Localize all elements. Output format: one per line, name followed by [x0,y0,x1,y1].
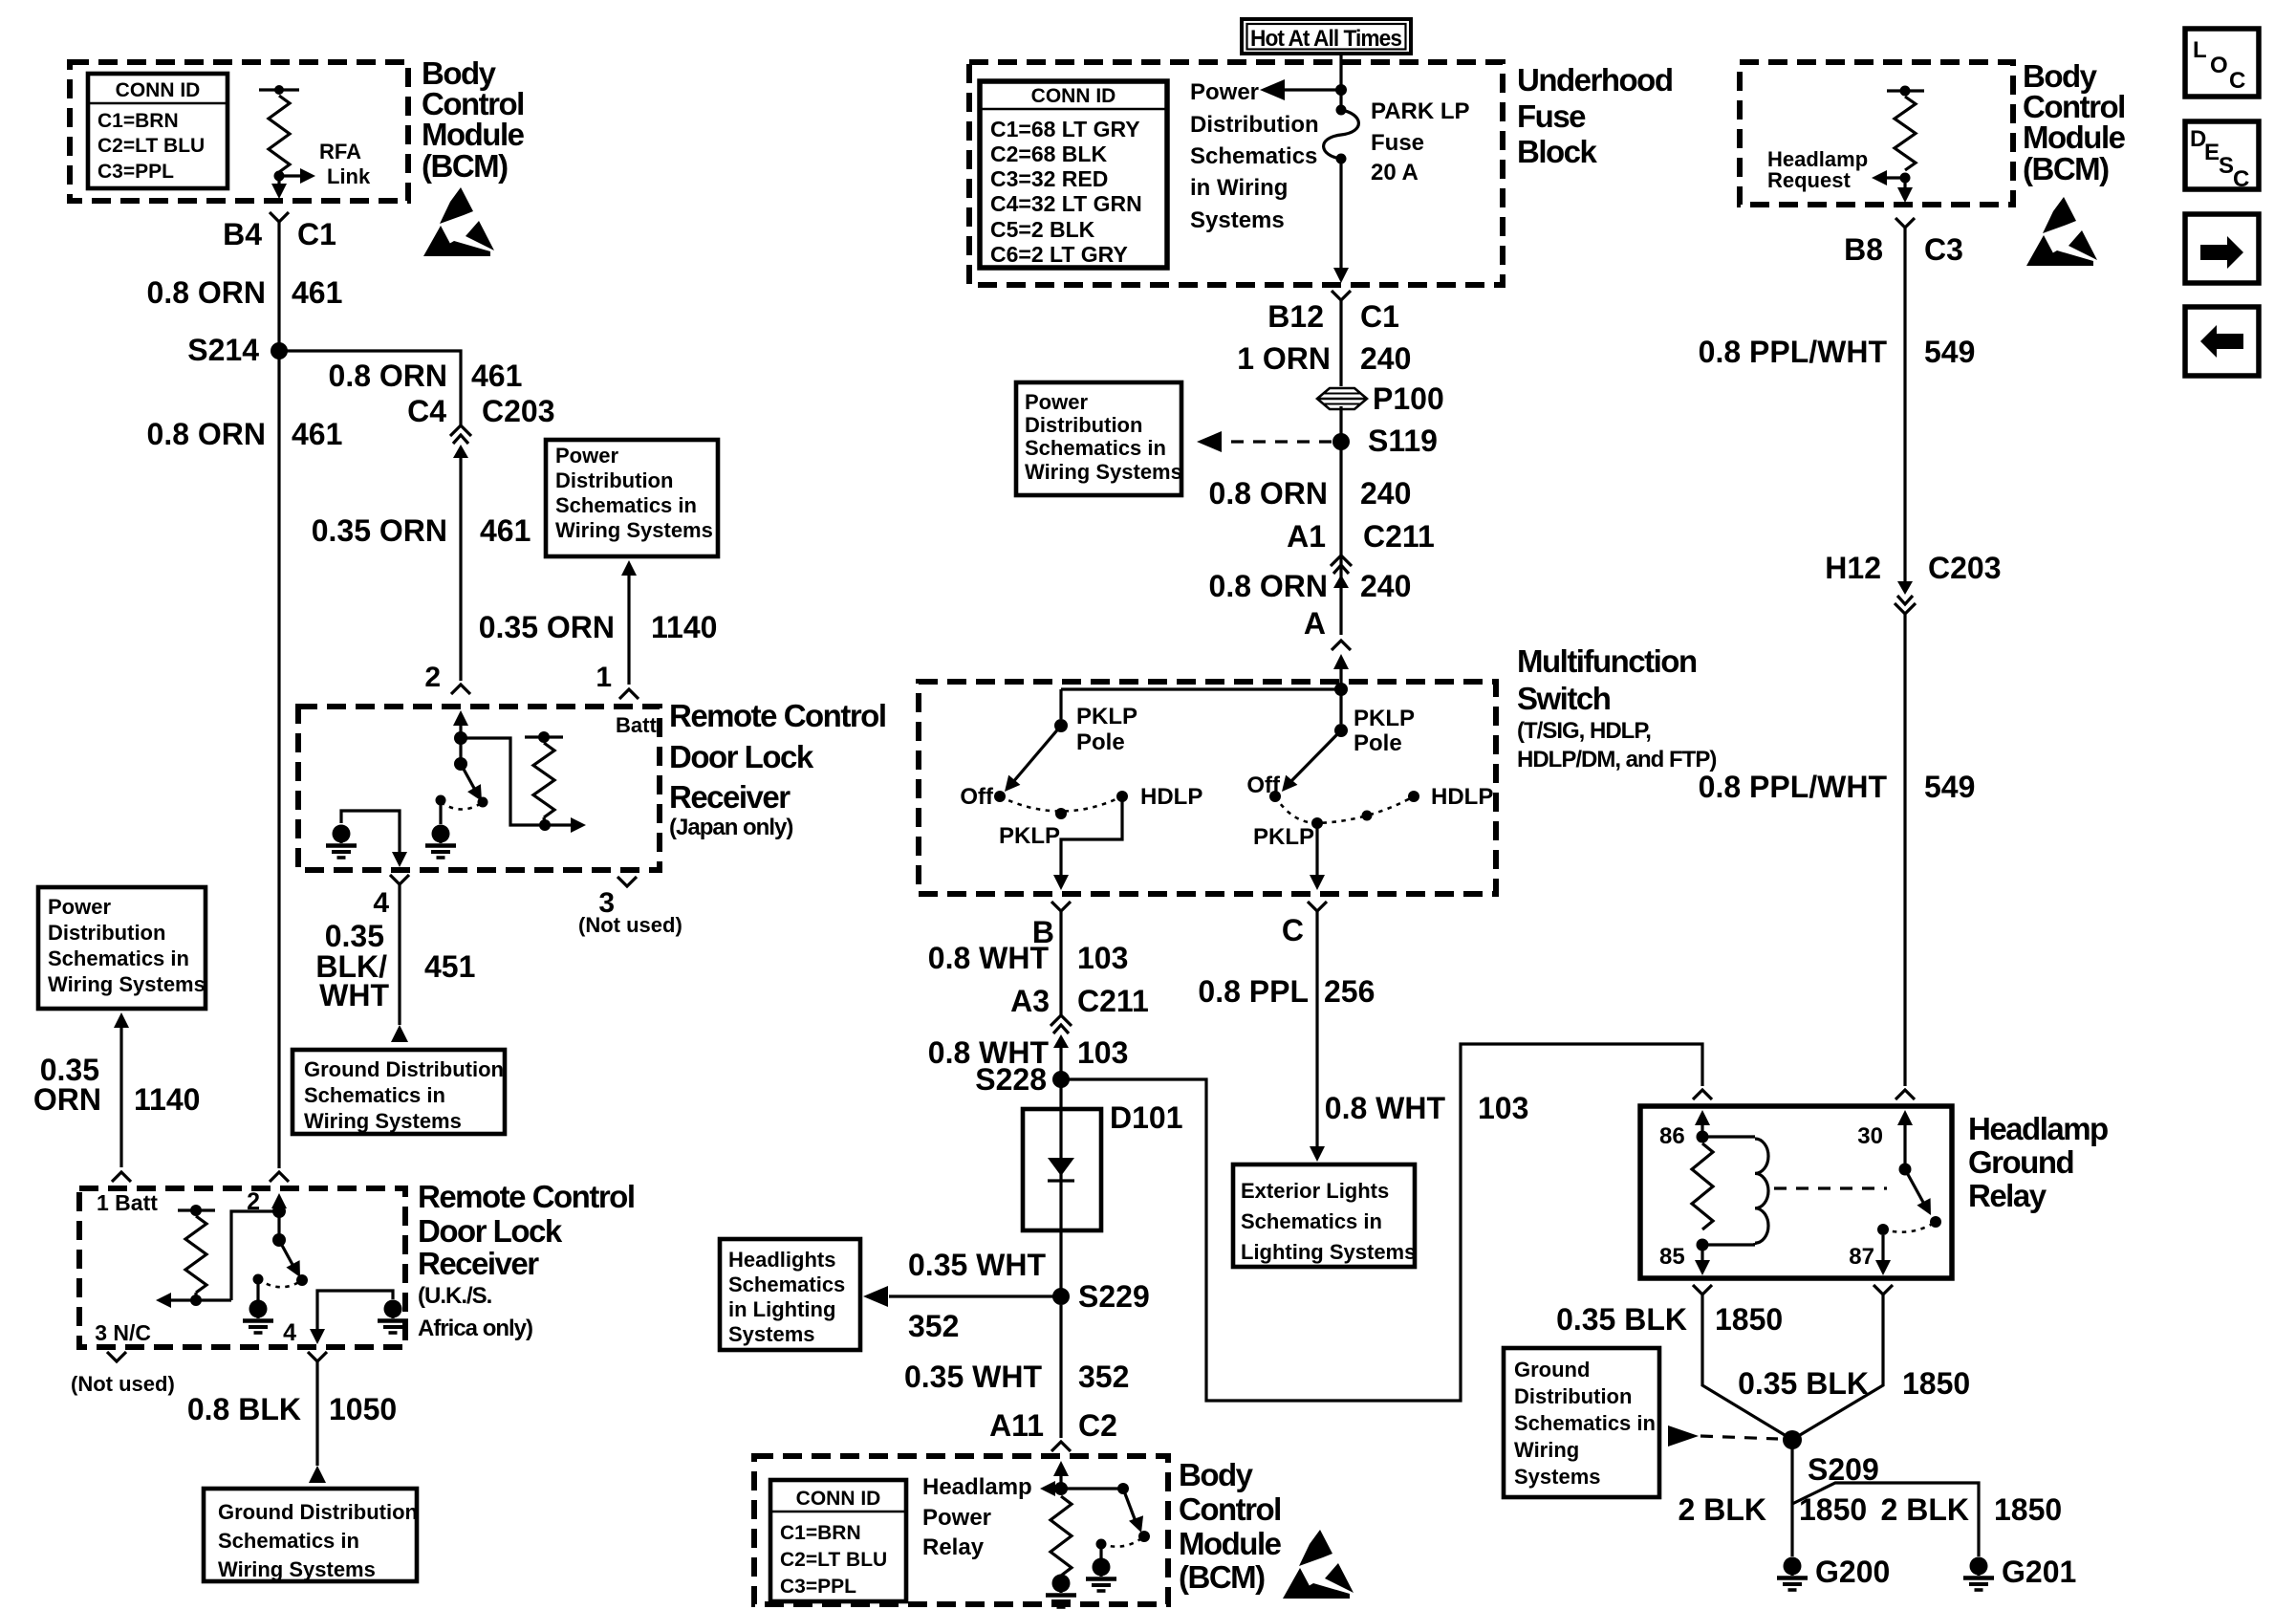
svg-text:461: 461 [471,359,522,393]
svg-text:S119: S119 [1368,424,1438,458]
svg-text:352: 352 [1078,1360,1129,1394]
svg-text:0.35 ORN: 0.35 ORN [479,610,615,644]
svg-text:B8: B8 [1844,232,1883,267]
svg-text:Distribution: Distribution [1025,413,1142,437]
svg-text:Body: Body [1179,1457,1254,1492]
svg-text:256: 256 [1324,974,1375,1009]
svg-text:240: 240 [1360,476,1411,511]
svg-text:0.8 ORN: 0.8 ORN [329,359,447,393]
svg-text:Systems: Systems [728,1322,815,1346]
svg-text:Fuse: Fuse [1371,130,1424,156]
svg-text:Headlights: Headlights [728,1248,835,1272]
svg-text:2 BLK: 2 BLK [1679,1492,1766,1527]
svg-text:Block: Block [1517,134,1598,169]
svg-text:0.8 ORN: 0.8 ORN [1209,569,1328,603]
svg-text:PKLP: PKLP [1354,706,1415,731]
svg-text:Switch: Switch [1517,681,1611,716]
svg-text:20 A: 20 A [1371,160,1419,185]
svg-text:4: 4 [283,1319,296,1346]
svg-text:S229: S229 [1078,1279,1150,1314]
svg-text:86: 86 [1659,1123,1685,1149]
svg-text:S214: S214 [187,333,259,367]
svg-text:0.8 PPL: 0.8 PPL [1198,974,1309,1009]
svg-text:Pole: Pole [1354,730,1402,756]
svg-text:Module: Module [1179,1526,1282,1561]
svg-text:in Wiring: in Wiring [1190,175,1288,201]
svg-text:Multifunction: Multifunction [1517,643,1697,679]
svg-text:Module: Module [422,117,525,152]
svg-text:87: 87 [1849,1244,1874,1270]
svg-text:461: 461 [292,417,342,451]
svg-text:WHT: WHT [319,978,389,1012]
svg-text:(Not used): (Not used) [71,1372,175,1396]
svg-text:Wiring Systems: Wiring Systems [304,1109,462,1133]
svg-text:Schematics in: Schematics in [48,946,189,970]
svg-text:1050: 1050 [329,1392,397,1426]
svg-text:103: 103 [1478,1091,1528,1125]
svg-text:Schematics in: Schematics in [1241,1209,1382,1233]
svg-text:C3=32 RED: C3=32 RED [990,166,1108,191]
svg-text:Receiver: Receiver [418,1246,539,1281]
svg-text:C3=PPL: C3=PPL [780,1576,856,1598]
svg-text:1 Batt: 1 Batt [97,1190,158,1215]
svg-text:0.35 WHT: 0.35 WHT [904,1360,1042,1394]
svg-text:(U.K./S.: (U.K./S. [418,1283,492,1309]
svg-text:C1=BRN: C1=BRN [780,1522,861,1544]
svg-text:240: 240 [1360,341,1411,376]
svg-text:Power: Power [555,444,618,468]
svg-text:Systems: Systems [1190,207,1285,233]
svg-text:Wiring Systems: Wiring Systems [48,972,206,996]
svg-text:0.35 ORN: 0.35 ORN [312,513,447,548]
svg-text:Systems: Systems [1514,1465,1601,1489]
svg-text:0.8 WHT: 0.8 WHT [1325,1091,1446,1125]
svg-text:Remote Control: Remote Control [669,698,886,733]
svg-text:(BCM): (BCM) [2023,151,2109,186]
svg-text:Wiring Systems: Wiring Systems [555,518,713,542]
svg-text:Link: Link [327,164,371,188]
svg-text:30: 30 [1857,1123,1883,1149]
svg-text:PKLP: PKLP [1253,824,1314,850]
svg-text:0.8 ORN: 0.8 ORN [147,417,266,451]
svg-text:S: S [2219,153,2234,179]
svg-text:Door Lock: Door Lock [669,739,814,774]
svg-text:(BCM): (BCM) [422,148,508,184]
svg-text:HDLP: HDLP [1431,784,1493,810]
svg-text:C5=2 BLK: C5=2 BLK [990,217,1095,242]
svg-text:0.35: 0.35 [325,919,384,953]
svg-text:Power: Power [1025,390,1088,414]
svg-text:Receiver: Receiver [669,779,791,815]
svg-text:Distribution: Distribution [555,468,673,492]
svg-text:C1: C1 [1360,299,1399,334]
svg-text:C4: C4 [407,394,446,428]
svg-text:C: C [1282,913,1304,947]
svg-text:C2=LT BLU: C2=LT BLU [780,1549,887,1571]
svg-text:Distribution: Distribution [1514,1384,1632,1408]
svg-text:1140: 1140 [651,610,717,644]
svg-text:240: 240 [1360,569,1411,603]
svg-text:B4: B4 [223,217,262,251]
svg-text:461: 461 [292,275,342,310]
svg-text:C203: C203 [482,394,555,428]
svg-text:Hot At All Times: Hot At All Times [1250,26,1402,52]
svg-text:1 ORN: 1 ORN [1237,341,1331,376]
svg-text:0.8 ORN: 0.8 ORN [1209,476,1328,511]
svg-text:CONN ID: CONN ID [796,1488,881,1510]
svg-text:0.35 WHT: 0.35 WHT [908,1248,1046,1282]
svg-text:Headlamp: Headlamp [1968,1111,2108,1146]
svg-text:2: 2 [424,662,441,693]
svg-text:0.8 PPL/WHT: 0.8 PPL/WHT [1699,770,1888,804]
svg-text:1850: 1850 [1902,1366,1970,1401]
svg-text:C2: C2 [1078,1408,1117,1443]
svg-text:1140: 1140 [134,1082,200,1117]
svg-text:Distribution: Distribution [1190,112,1319,138]
svg-text:Relay: Relay [1968,1178,2047,1213]
svg-text:Ground: Ground [1514,1358,1590,1382]
svg-text:H12: H12 [1825,551,1881,585]
svg-text:Headlamp: Headlamp [922,1474,1032,1500]
svg-text:1: 1 [596,662,612,693]
svg-text:(Not used): (Not used) [578,913,682,937]
svg-text:E: E [2204,140,2220,165]
svg-text:Lighting Systems: Lighting Systems [1241,1240,1416,1264]
svg-text:C2=LT BLU: C2=LT BLU [97,135,205,157]
svg-text:PKLP: PKLP [1076,704,1137,729]
svg-text:0.8 ORN: 0.8 ORN [147,275,266,310]
svg-text:Off: Off [1246,772,1281,798]
svg-text:ORN: ORN [33,1082,101,1117]
svg-text:451: 451 [424,949,475,984]
svg-text:C6=2 LT GRY: C6=2 LT GRY [990,242,1128,267]
svg-text:549: 549 [1924,770,1975,804]
svg-text:85: 85 [1659,1244,1685,1270]
svg-text:4: 4 [373,887,389,919]
svg-text:0.8 WHT: 0.8 WHT [928,941,1050,975]
svg-text:Schematics in: Schematics in [555,493,697,517]
svg-text:RFA: RFA [319,140,361,163]
svg-text:S228: S228 [975,1062,1047,1097]
svg-text:C: C [2233,166,2249,192]
svg-text:C3: C3 [1924,232,1963,267]
svg-text:2 BLK: 2 BLK [1881,1492,1969,1527]
svg-text:1850: 1850 [1994,1492,2062,1527]
svg-text:Schematics in: Schematics in [1025,436,1166,460]
svg-text:C2=68 BLK: C2=68 BLK [990,141,1107,166]
svg-text:C4=32 LT GRN: C4=32 LT GRN [990,191,1142,216]
svg-text:Door Lock: Door Lock [418,1213,563,1249]
svg-text:HDLP/DM, and FTP): HDLP/DM, and FTP) [1517,747,1716,772]
svg-text:0.35 BLK: 0.35 BLK [1556,1302,1687,1337]
svg-text:C3=PPL: C3=PPL [97,161,174,183]
svg-text:A3: A3 [1010,984,1050,1018]
svg-text:Relay: Relay [922,1534,985,1560]
svg-text:in Lighting: in Lighting [728,1297,835,1321]
svg-text:Schematics in: Schematics in [1514,1411,1656,1435]
svg-text:Power: Power [922,1505,991,1531]
svg-text:549: 549 [1924,335,1975,369]
svg-text:1850: 1850 [1799,1492,1867,1527]
svg-text:G201: G201 [2002,1555,2076,1589]
svg-text:Wiring Systems: Wiring Systems [1025,460,1182,484]
svg-text:CONN ID: CONN ID [116,79,201,101]
svg-text:Ground Distribution: Ground Distribution [218,1500,418,1524]
svg-text:HDLP: HDLP [1140,784,1202,810]
svg-text:A: A [1304,606,1326,641]
svg-text:(Japan only): (Japan only) [669,815,792,840]
svg-text:C211: C211 [1077,984,1149,1018]
svg-text:C211: C211 [1363,519,1435,554]
svg-text:3 N/C: 3 N/C [95,1320,151,1345]
svg-text:C1=68 LT GRY: C1=68 LT GRY [990,117,1140,141]
svg-text:Schematics: Schematics [728,1273,845,1296]
svg-text:Remote Control: Remote Control [418,1179,635,1214]
svg-text:352: 352 [908,1309,959,1343]
svg-text:PKLP: PKLP [999,823,1060,849]
svg-text:Batt: Batt [616,713,657,737]
svg-text:P100: P100 [1373,381,1444,416]
svg-text:Off: Off [960,784,994,810]
svg-text:(T/SIG, HDLP,: (T/SIG, HDLP, [1517,718,1651,744]
svg-text:PARK LP: PARK LP [1371,98,1470,124]
svg-text:D101: D101 [1110,1100,1183,1135]
svg-text:103: 103 [1077,941,1128,975]
svg-text:Power: Power [1190,79,1259,105]
svg-text:Schematics in: Schematics in [304,1083,445,1107]
svg-text:103: 103 [1077,1035,1128,1070]
svg-text:0.35 BLK: 0.35 BLK [1738,1366,1869,1401]
svg-text:C203: C203 [1928,551,2002,585]
svg-text:(BCM): (BCM) [1179,1559,1265,1595]
svg-text:O: O [2210,53,2228,78]
svg-text:Wiring: Wiring [1514,1438,1579,1462]
svg-text:Africa only): Africa only) [418,1316,532,1341]
svg-text:Fuse: Fuse [1517,98,1586,134]
svg-text:A1: A1 [1287,519,1326,554]
svg-text:Ground: Ground [1968,1144,2073,1180]
svg-text:0.8 BLK: 0.8 BLK [187,1392,301,1426]
svg-text:C: C [2229,68,2245,94]
svg-text:Power: Power [48,895,111,919]
svg-text:L: L [2193,37,2207,63]
svg-text:CONN ID: CONN ID [1031,85,1116,107]
svg-text:Pole: Pole [1076,729,1125,755]
svg-text:Control: Control [1179,1491,1281,1527]
svg-text:Underhood: Underhood [1517,62,1672,98]
svg-text:Exterior Lights: Exterior Lights [1241,1179,1389,1203]
svg-text:Module: Module [2023,120,2126,155]
svg-text:Schematics in: Schematics in [218,1529,359,1553]
svg-text:G200: G200 [1815,1555,1890,1589]
svg-text:Distribution: Distribution [48,921,165,945]
svg-text:A11: A11 [989,1408,1044,1443]
svg-text:C1: C1 [297,217,336,251]
svg-text:Schematics: Schematics [1190,143,1317,169]
svg-text:C1=BRN: C1=BRN [97,110,179,132]
svg-text:0.8 PPL/WHT: 0.8 PPL/WHT [1699,335,1888,369]
svg-text:Request: Request [1767,168,1851,192]
svg-text:Ground Distribution: Ground Distribution [304,1057,504,1081]
svg-text:B12: B12 [1267,299,1324,334]
svg-text:461: 461 [480,513,531,548]
svg-text:1850: 1850 [1715,1302,1783,1337]
svg-text:Wiring Systems: Wiring Systems [218,1557,376,1581]
